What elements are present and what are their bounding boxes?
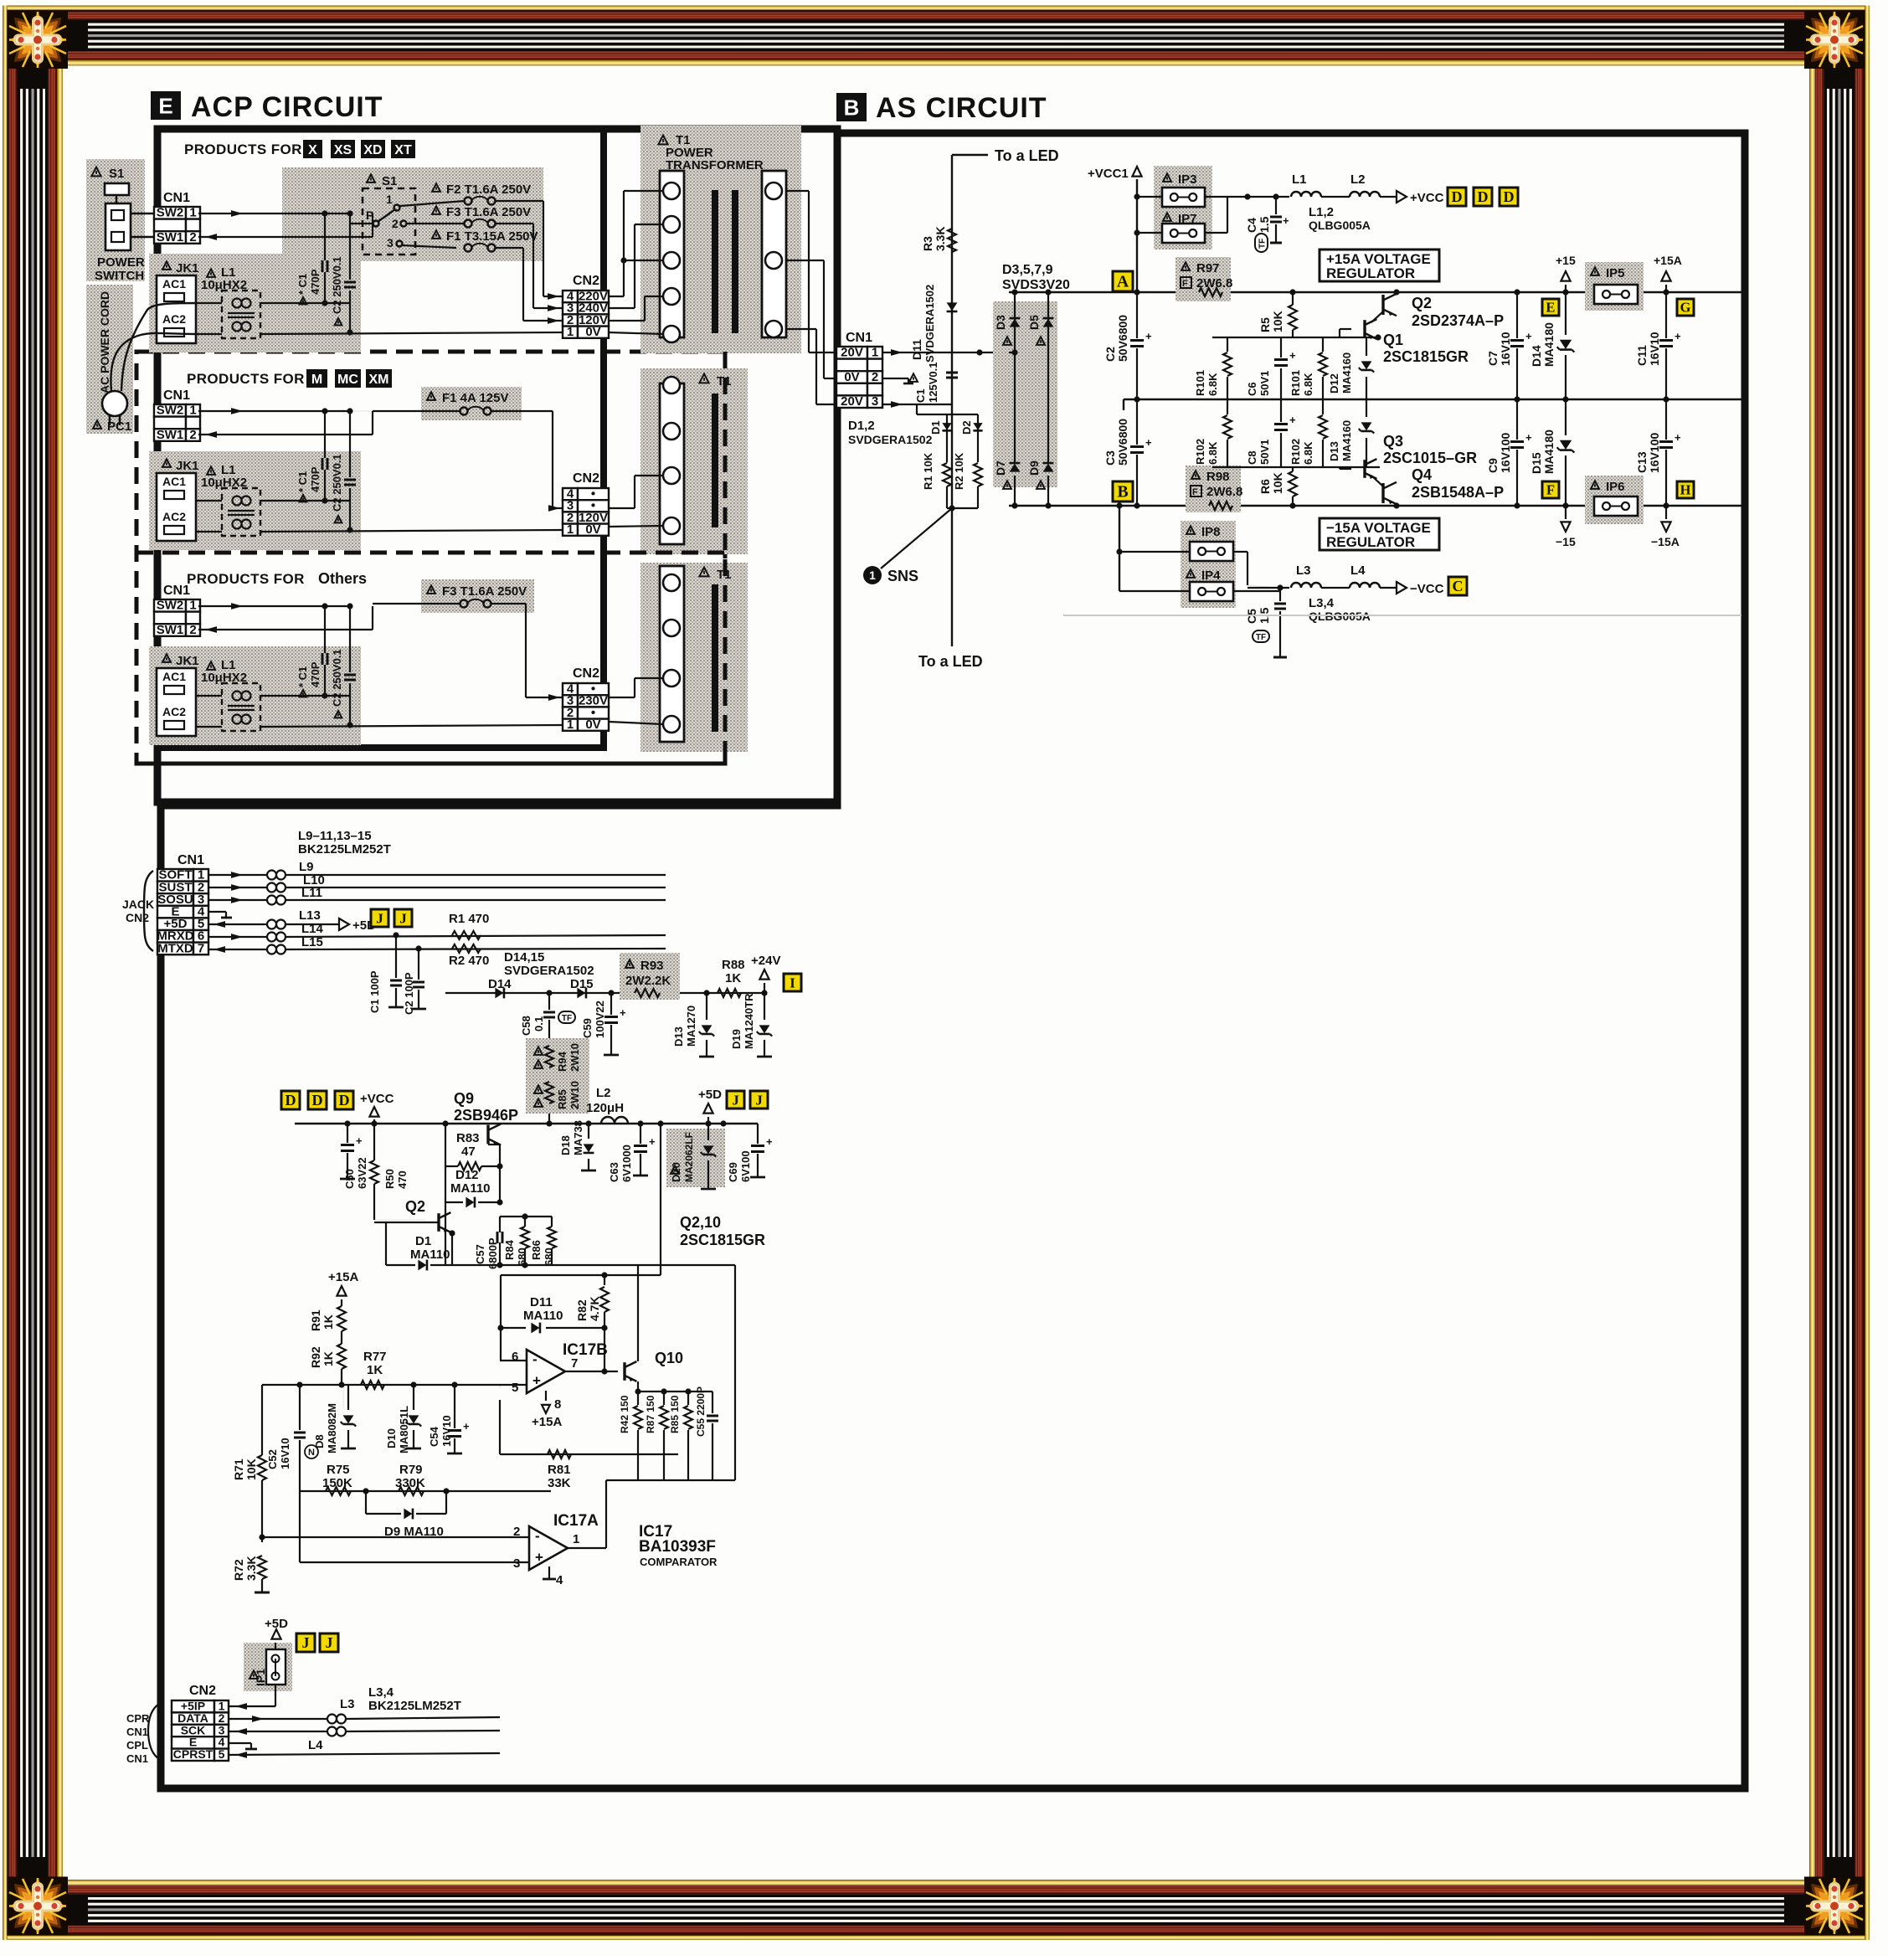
- wire CN1-SW2 node to switch P: [349, 213, 351, 224]
- svg-text:H: H: [1680, 482, 1691, 498]
- node A tag: [1113, 271, 1133, 291]
- svg-text:-: -: [535, 1528, 540, 1544]
- svg-text:JK1: JK1: [176, 654, 199, 668]
- svg-text:D: D: [338, 1092, 349, 1109]
- svg-text:IP1: IP1: [254, 1669, 267, 1686]
- svg-text:C9: C9: [1486, 458, 1500, 473]
- wires IP8/IP4 merge: [1233, 551, 1248, 553]
- svg-text:+15A: +15A: [328, 1270, 358, 1284]
- inductor L14: [208, 936, 266, 938]
- svg-text:S1: S1: [109, 167, 124, 181]
- jumper IP3: [1163, 173, 1171, 182]
- svg-text:D19: D19: [730, 1029, 743, 1049]
- svg-text:1: 1: [567, 325, 574, 339]
- tag J: [371, 909, 388, 927]
- svg-text:+: +: [1525, 330, 1532, 342]
- svg-text:* C1: * C1: [296, 666, 309, 687]
- jack JK1: [162, 261, 171, 270]
- corner medallion bottom-left: [8, 1877, 68, 1935]
- faint scan line: [1063, 615, 1741, 616]
- wire SNS diagonal: [881, 508, 952, 568]
- svg-text:33K: 33K: [548, 1476, 571, 1490]
- svg-text:TF: TF: [1258, 239, 1268, 249]
- svg-text:SVDGERA1502: SVDGERA1502: [848, 433, 933, 446]
- svg-text:MA1270: MA1270: [685, 1006, 697, 1047]
- svg-text:1: 1: [567, 718, 574, 732]
- svg-text:R101: R101: [1289, 370, 1302, 396]
- dashed box overlay edges: [723, 352, 728, 764]
- svg-text:P: P: [366, 208, 373, 222]
- wire AC2/0V run: [196, 726, 222, 728]
- svg-text:4.7K: 4.7K: [588, 1296, 601, 1321]
- tag J: [296, 1633, 315, 1652]
- +15A VOLTAGE REGULATOR title box: [1320, 250, 1439, 281]
- svg-text:SVDGERA1502: SVDGERA1502: [504, 964, 594, 978]
- svg-text:MA1240TR: MA1240TR: [743, 993, 755, 1049]
- wire Q2 emitter bottom: [385, 1222, 387, 1265]
- wire AC2/0V run: [196, 333, 222, 335]
- svg-text:MA4160: MA4160: [1340, 352, 1353, 394]
- jumper IP5: [1591, 267, 1599, 275]
- power transformer T1 (variant 1): [640, 126, 801, 353]
- svg-text:R75: R75: [327, 1463, 350, 1477]
- svg-text:6.8K: 6.8K: [1206, 441, 1219, 465]
- svg-text:+: +: [649, 1135, 656, 1148]
- svg-text:F2 T1.6A 250V: F2 T1.6A 250V: [446, 183, 531, 197]
- halftone patch R97: [1175, 257, 1231, 301]
- svg-text:R72: R72: [232, 1559, 245, 1581]
- ground stub E row: [229, 1742, 251, 1744]
- dashed box around product variants 2-3: [136, 352, 725, 764]
- svg-text:CN1: CN1: [126, 1752, 148, 1765]
- wire SW2 row: [198, 213, 350, 214]
- wire +5IP row: [229, 1705, 275, 1707]
- svg-text:16V10: 16V10: [1648, 332, 1661, 366]
- fuse F2 T1.6A 250V: [432, 183, 440, 192]
- svg-text:CN2: CN2: [573, 274, 599, 288]
- svg-text:2: 2: [189, 428, 196, 442]
- svg-text:TF: TF: [562, 1014, 572, 1023]
- svg-text:MA4180: MA4180: [1542, 322, 1556, 367]
- svg-text:C2 250V0.1: C2 250V0.1: [331, 454, 343, 512]
- svg-text:R2 10K: R2 10K: [953, 452, 965, 490]
- ground stub 0V row: [882, 378, 908, 379]
- vertical node wire with C2: [349, 606, 351, 672]
- power plug PC1: [102, 391, 127, 416]
- jumper IP7: [1163, 213, 1171, 221]
- wire L1 to C node: [260, 695, 350, 697]
- section label E: [151, 91, 181, 120]
- svg-text:R88: R88: [722, 958, 745, 972]
- ground IC17A pin4: [548, 1566, 550, 1579]
- resistor R98 2W6.8: [1191, 471, 1200, 479]
- main comparator input wire: [262, 1384, 473, 1386]
- svg-text:470P: 470P: [309, 466, 322, 492]
- resistor R97 2W6.8: [1181, 262, 1190, 270]
- svg-text:R81: R81: [548, 1463, 571, 1477]
- svg-text:0V: 0V: [585, 522, 600, 537]
- svg-text:D: D: [311, 1092, 322, 1109]
- svg-text:6: 6: [512, 1350, 518, 1364]
- wire AC1 to L1: [196, 500, 222, 502]
- svg-text:IC17A: IC17A: [553, 1512, 599, 1530]
- svg-text:IP4: IP4: [1201, 568, 1221, 583]
- svg-text:F3 T1.6A 250V: F3 T1.6A 250V: [442, 584, 527, 599]
- jumper IP4: [1186, 569, 1195, 578]
- svg-text:D5: D5: [1027, 315, 1041, 330]
- wires secondary to AS CN1: [785, 190, 809, 192]
- main wire A (+) rail: [1009, 291, 1745, 293]
- svg-text:D10: D10: [385, 1428, 398, 1448]
- svg-text:3: 3: [513, 1556, 520, 1571]
- wires Q2 block to comparator block: [501, 1274, 661, 1276]
- vertical node wire with C2: [349, 213, 351, 280]
- wire To a LED (bottom): [951, 508, 953, 646]
- svg-text:−15: −15: [1556, 535, 1576, 548]
- svg-text:D14: D14: [488, 977, 512, 991]
- svg-text:−15A: −15A: [1651, 535, 1680, 548]
- tag J: [727, 1091, 744, 1109]
- svg-text:I: I: [790, 975, 795, 990]
- svg-text:120μH: 120μH: [586, 1101, 624, 1115]
- wires IP3/IP7 to L1: [1137, 196, 1162, 198]
- halftone patch IP1: [244, 1643, 292, 1691]
- wires switch to fuses: [400, 201, 465, 206]
- svg-text:To a LED: To a LED: [995, 147, 1059, 164]
- svg-text:2SB1548A–P: 2SB1548A–P: [1412, 484, 1504, 501]
- svg-text:J: J: [325, 1634, 332, 1651]
- jumper IP8: [1186, 526, 1195, 534]
- svg-text:CN1: CN1: [177, 853, 204, 867]
- svg-text:MTXD: MTXD: [157, 941, 193, 955]
- svg-text:CN1: CN1: [163, 584, 190, 598]
- tag D: [281, 1091, 300, 1109]
- tag J: [750, 1091, 768, 1109]
- svg-text:L14: L14: [301, 922, 324, 936]
- inductor L1 10uHX2: [207, 466, 215, 475]
- svg-text:D1: D1: [415, 1234, 431, 1248]
- svg-text:IP3: IP3: [1178, 172, 1197, 187]
- svg-text:2W2.2K: 2W2.2K: [625, 974, 671, 988]
- svg-text:1: 1: [386, 193, 393, 206]
- halftone patch R98: [1186, 466, 1241, 512]
- tag G: [1677, 299, 1694, 316]
- fuse F3 T1.6A 250V (variant3): [421, 579, 534, 613]
- svg-text:470P: 470P: [309, 269, 322, 295]
- svg-text:MA8082M: MA8082M: [326, 1403, 338, 1453]
- svg-text:+: +: [463, 1420, 470, 1433]
- inductor L11: [208, 899, 266, 901]
- +VCC output arrow: [1397, 191, 1407, 203]
- svg-text:R98: R98: [1206, 470, 1230, 484]
- svg-text:R3: R3: [921, 236, 934, 251]
- svg-text:1K: 1K: [322, 1351, 335, 1366]
- resistor R93 2W2.2K: [625, 959, 634, 968]
- rectifier vertical wires: [1014, 292, 1016, 462]
- svg-text:F3 T1.6A 250V: F3 T1.6A 250V: [446, 205, 531, 219]
- fuse F1 T3.15A 250V: [432, 230, 440, 239]
- bracket jack: [144, 871, 153, 951]
- svg-text:D1: D1: [929, 420, 942, 435]
- corner medallion top-right: [1804, 11, 1865, 69]
- inductor L1 10uHX2: [207, 661, 215, 670]
- svg-text:+: +: [1289, 414, 1296, 426]
- wire Q9 base row: [445, 1124, 446, 1265]
- svg-text:C54: C54: [428, 1426, 440, 1447]
- svg-text:5: 5: [512, 1381, 518, 1395]
- svg-text:16V100: 16V100: [1648, 433, 1661, 473]
- svg-text:1.5: 1.5: [1258, 216, 1271, 233]
- svg-text:100V22: 100V22: [594, 1001, 606, 1038]
- svg-text:F1 4A 125V: F1 4A 125V: [442, 391, 509, 405]
- svg-text:BK2125LM252T: BK2125LM252T: [298, 842, 391, 857]
- svg-text:D11: D11: [530, 1295, 553, 1309]
- svg-text:F: F: [1192, 487, 1198, 497]
- wire L1 to C node: [260, 302, 350, 304]
- svg-text:TF: TF: [1256, 633, 1266, 642]
- inductor L13 / +5D: [208, 923, 266, 925]
- svg-text:R94: R94: [556, 1051, 568, 1072]
- svg-text:SVDS3V20: SVDS3V20: [1002, 278, 1070, 292]
- svg-text:POWER: POWER: [97, 255, 145, 270]
- wires variant3 CN2 to transformer: [609, 722, 663, 724]
- svg-text:R77: R77: [363, 1350, 387, 1364]
- upper component rail: [1212, 337, 1380, 338]
- svg-text:D14,15: D14,15: [504, 950, 544, 965]
- svg-text:A: A: [1117, 273, 1129, 291]
- svg-text:REGULATOR: REGULATOR: [1326, 534, 1415, 550]
- svg-text:+: +: [1525, 431, 1532, 444]
- svg-text:IC17B: IC17B: [563, 1341, 608, 1359]
- svg-text:D: D: [1451, 188, 1462, 205]
- svg-text:R1 10K: R1 10K: [922, 452, 934, 490]
- svg-text:2SC1815GR: 2SC1815GR: [1383, 348, 1469, 365]
- svg-text:63V22: 63V22: [356, 1157, 368, 1189]
- variant3 transformer T1: [640, 563, 748, 752]
- svg-text:470P: 470P: [309, 661, 322, 687]
- svg-text:L11: L11: [301, 886, 322, 900]
- svg-text:D18: D18: [559, 1135, 572, 1155]
- svg-text:470: 470: [396, 1170, 409, 1189]
- svg-text:+VCC1: +VCC1: [1088, 167, 1129, 181]
- svg-text:MA110: MA110: [523, 1309, 563, 1323]
- svg-text:REGULATOR: REGULATOR: [1326, 265, 1415, 281]
- tag J: [394, 909, 412, 927]
- svg-text:D15: D15: [570, 977, 594, 991]
- svg-text:AC1: AC1: [162, 670, 186, 683]
- svg-text:F1 T3.15A 250V: F1 T3.15A 250V: [446, 229, 538, 244]
- svg-text:Q9: Q9: [454, 1090, 474, 1107]
- jack JK1: [162, 459, 171, 467]
- wire to IC17A pin3: [300, 1561, 529, 1563]
- svg-text:D12: D12: [455, 1168, 479, 1182]
- wires CN2 to primary: [609, 296, 624, 297]
- svg-text:+15A: +15A: [532, 1415, 562, 1429]
- dashed separator between variant 2 and 3: [136, 551, 725, 555]
- svg-text:+: +: [620, 1006, 626, 1019]
- ACP inner solid box (right/bottom edges): [600, 129, 607, 748]
- svg-text:2SD2374A–P: 2SD2374A–P: [1412, 312, 1504, 329]
- svg-text:SW1: SW1: [157, 623, 184, 637]
- long vertical from rail to comparator: [660, 1124, 661, 1275]
- svg-text:L3: L3: [340, 1697, 355, 1711]
- svg-text:E: E: [158, 94, 172, 119]
- halftone patch power switch: [86, 159, 145, 281]
- svg-text:JACK: JACK: [122, 898, 154, 911]
- svg-text:D13: D13: [672, 1026, 685, 1047]
- svg-text:D13: D13: [1328, 441, 1340, 461]
- variant2 transformer T1: [640, 368, 748, 554]
- svg-text:5: 5: [219, 1747, 225, 1761]
- svg-text:D2: D2: [960, 420, 973, 435]
- svg-text:D9: D9: [1027, 460, 1041, 476]
- svg-text:+15A: +15A: [1654, 254, 1682, 267]
- svg-text:C57: C57: [474, 1244, 486, 1264]
- svg-text:L1,2: L1,2: [1309, 205, 1334, 219]
- svg-text:D14: D14: [1530, 345, 1543, 367]
- svg-text:C69: C69: [727, 1162, 739, 1182]
- wire CPRST row: [229, 1753, 500, 1755]
- svg-text:1: 1: [872, 346, 878, 360]
- wire 20V row 3: [882, 404, 952, 405]
- svg-text:R84: R84: [503, 1239, 516, 1260]
- svg-text:SW1: SW1: [157, 230, 184, 244]
- svg-text:J: J: [301, 1634, 309, 1651]
- corner medallion bottom-right: [1804, 1877, 1865, 1935]
- svg-text:3: 3: [872, 394, 878, 409]
- halftone patch IP6: [1585, 476, 1644, 524]
- svg-text:L2: L2: [1350, 172, 1366, 187]
- svg-text:C2 250V0.1: C2 250V0.1: [331, 256, 343, 314]
- svg-text:X: X: [308, 143, 317, 157]
- wire AC1 to L1: [196, 302, 222, 304]
- svg-text:AC1: AC1: [162, 277, 186, 291]
- svg-text:PRODUCTS FOR: PRODUCTS FOR: [187, 371, 305, 387]
- svg-text:L2: L2: [596, 1086, 611, 1100]
- svg-text:PRODUCTS FOR: PRODUCTS FOR: [187, 571, 305, 587]
- svg-text:CN1: CN1: [163, 191, 190, 205]
- inductor L9: [208, 874, 266, 876]
- svg-text:SVDGERA1502: SVDGERA1502: [923, 285, 936, 363]
- ground stub E pin: [208, 911, 226, 913]
- svg-text:B: B: [844, 95, 860, 121]
- decorative frame border: [3, 6, 1870, 11]
- svg-text:J: J: [755, 1092, 763, 1108]
- svg-text:R101: R101: [1194, 370, 1206, 396]
- svg-text:R79: R79: [399, 1463, 423, 1477]
- wire AC1 to L1: [196, 695, 222, 697]
- svg-text:8: 8: [554, 1397, 561, 1412]
- halftone patch IP8: [1181, 521, 1236, 564]
- tag D: [1448, 188, 1466, 206]
- svg-text:C2 250V0.1: C2 250V0.1: [331, 649, 343, 707]
- selector switch S1: [367, 174, 375, 183]
- svg-text:D12: D12: [1328, 373, 1340, 394]
- fuse F1 4A 125V (variant2): [421, 387, 522, 420]
- svg-text:AC2: AC2: [162, 510, 186, 523]
- svg-text:R42 150: R42 150: [619, 1395, 630, 1433]
- svg-text:C4: C4: [1245, 218, 1258, 233]
- -15 terminal: [1561, 522, 1570, 532]
- svg-text:2W10: 2W10: [568, 1043, 581, 1072]
- inductor L1 10uHX2: [207, 269, 215, 277]
- svg-text:3.3K: 3.3K: [934, 226, 947, 251]
- mid wire: [1124, 399, 1745, 400]
- wire B to IP8/IP4: [1119, 506, 1120, 591]
- svg-text:C1: C1: [914, 388, 927, 403]
- svg-text:R97: R97: [1196, 261, 1220, 275]
- svg-text:6.8K: 6.8K: [1302, 373, 1314, 396]
- AS circuit + lower section L-shaped box: [161, 133, 1745, 1788]
- halftone patch R93: [620, 953, 680, 1000]
- svg-text:MA8051L: MA8051L: [398, 1406, 410, 1453]
- halftone patch IP4: [1181, 564, 1236, 608]
- svg-text:+: +: [1145, 330, 1152, 342]
- svg-text:* C1: * C1: [296, 471, 309, 492]
- svg-text:2SB946P: 2SB946P: [454, 1107, 518, 1124]
- svg-text:L9–11,13–15: L9–11,13–15: [298, 829, 372, 843]
- svg-text:E: E: [1546, 300, 1556, 316]
- svg-text:+24V: +24V: [751, 954, 780, 968]
- svg-text:2W6.8: 2W6.8: [1206, 485, 1242, 499]
- svg-text:0V: 0V: [585, 718, 600, 732]
- svg-text:2: 2: [189, 623, 196, 637]
- svg-text:To a LED: To a LED: [918, 653, 983, 670]
- svg-text:J: J: [732, 1092, 739, 1108]
- svg-text:C1 100P: C1 100P: [368, 970, 381, 1013]
- svg-text:+5D: +5D: [698, 1088, 722, 1102]
- svg-text:R85: R85: [556, 1089, 568, 1109]
- svg-text:1: 1: [189, 404, 196, 418]
- svg-text:C7: C7: [1486, 351, 1500, 366]
- svg-text:0V: 0V: [585, 325, 600, 339]
- svg-text:L4: L4: [308, 1738, 323, 1752]
- svg-text:+: +: [1283, 214, 1289, 227]
- resistor R94 2W10: [534, 1047, 543, 1055]
- svg-text:G: G: [1680, 300, 1691, 316]
- resistor R81 33K: [500, 1453, 678, 1455]
- svg-text:C6: C6: [1246, 382, 1258, 396]
- svg-text:1K: 1K: [322, 1314, 335, 1330]
- svg-text:MA4180: MA4180: [1542, 430, 1556, 474]
- svg-text:MA110: MA110: [410, 1248, 450, 1262]
- svg-text:16V10: 16V10: [1499, 332, 1512, 366]
- inductor L15: [208, 949, 266, 950]
- svg-text:2: 2: [392, 217, 399, 230]
- svg-text:+: +: [766, 1135, 773, 1148]
- svg-text:MA738: MA738: [572, 1120, 584, 1155]
- svg-text:CN2: CN2: [573, 471, 599, 486]
- svg-text:AC2: AC2: [162, 312, 186, 326]
- svg-text:6V100: 6V100: [739, 1150, 752, 1182]
- transistor Q2 2SD2374A-P: [1381, 295, 1384, 315]
- svg-text:10K: 10K: [1271, 311, 1284, 332]
- svg-text:BK2125LM252T: BK2125LM252T: [368, 1699, 461, 1713]
- wires fuses to CN2: [495, 200, 543, 202]
- transistor Q3 2SC1015-GR: [1363, 460, 1366, 478]
- tag E: [1542, 299, 1559, 316]
- svg-text:R83: R83: [456, 1131, 480, 1145]
- wire SW2 row: [198, 410, 350, 412]
- svg-text:+: +: [532, 1373, 541, 1389]
- halftone patch AC power cord: [86, 285, 133, 434]
- svg-text:20V: 20V: [841, 394, 863, 409]
- svg-text:2: 2: [189, 230, 196, 244]
- svg-text:C11: C11: [1635, 345, 1649, 366]
- section label B: [836, 93, 867, 121]
- svg-text:D: D: [1503, 188, 1514, 205]
- halftone patch IP3/IP7: [1154, 166, 1212, 250]
